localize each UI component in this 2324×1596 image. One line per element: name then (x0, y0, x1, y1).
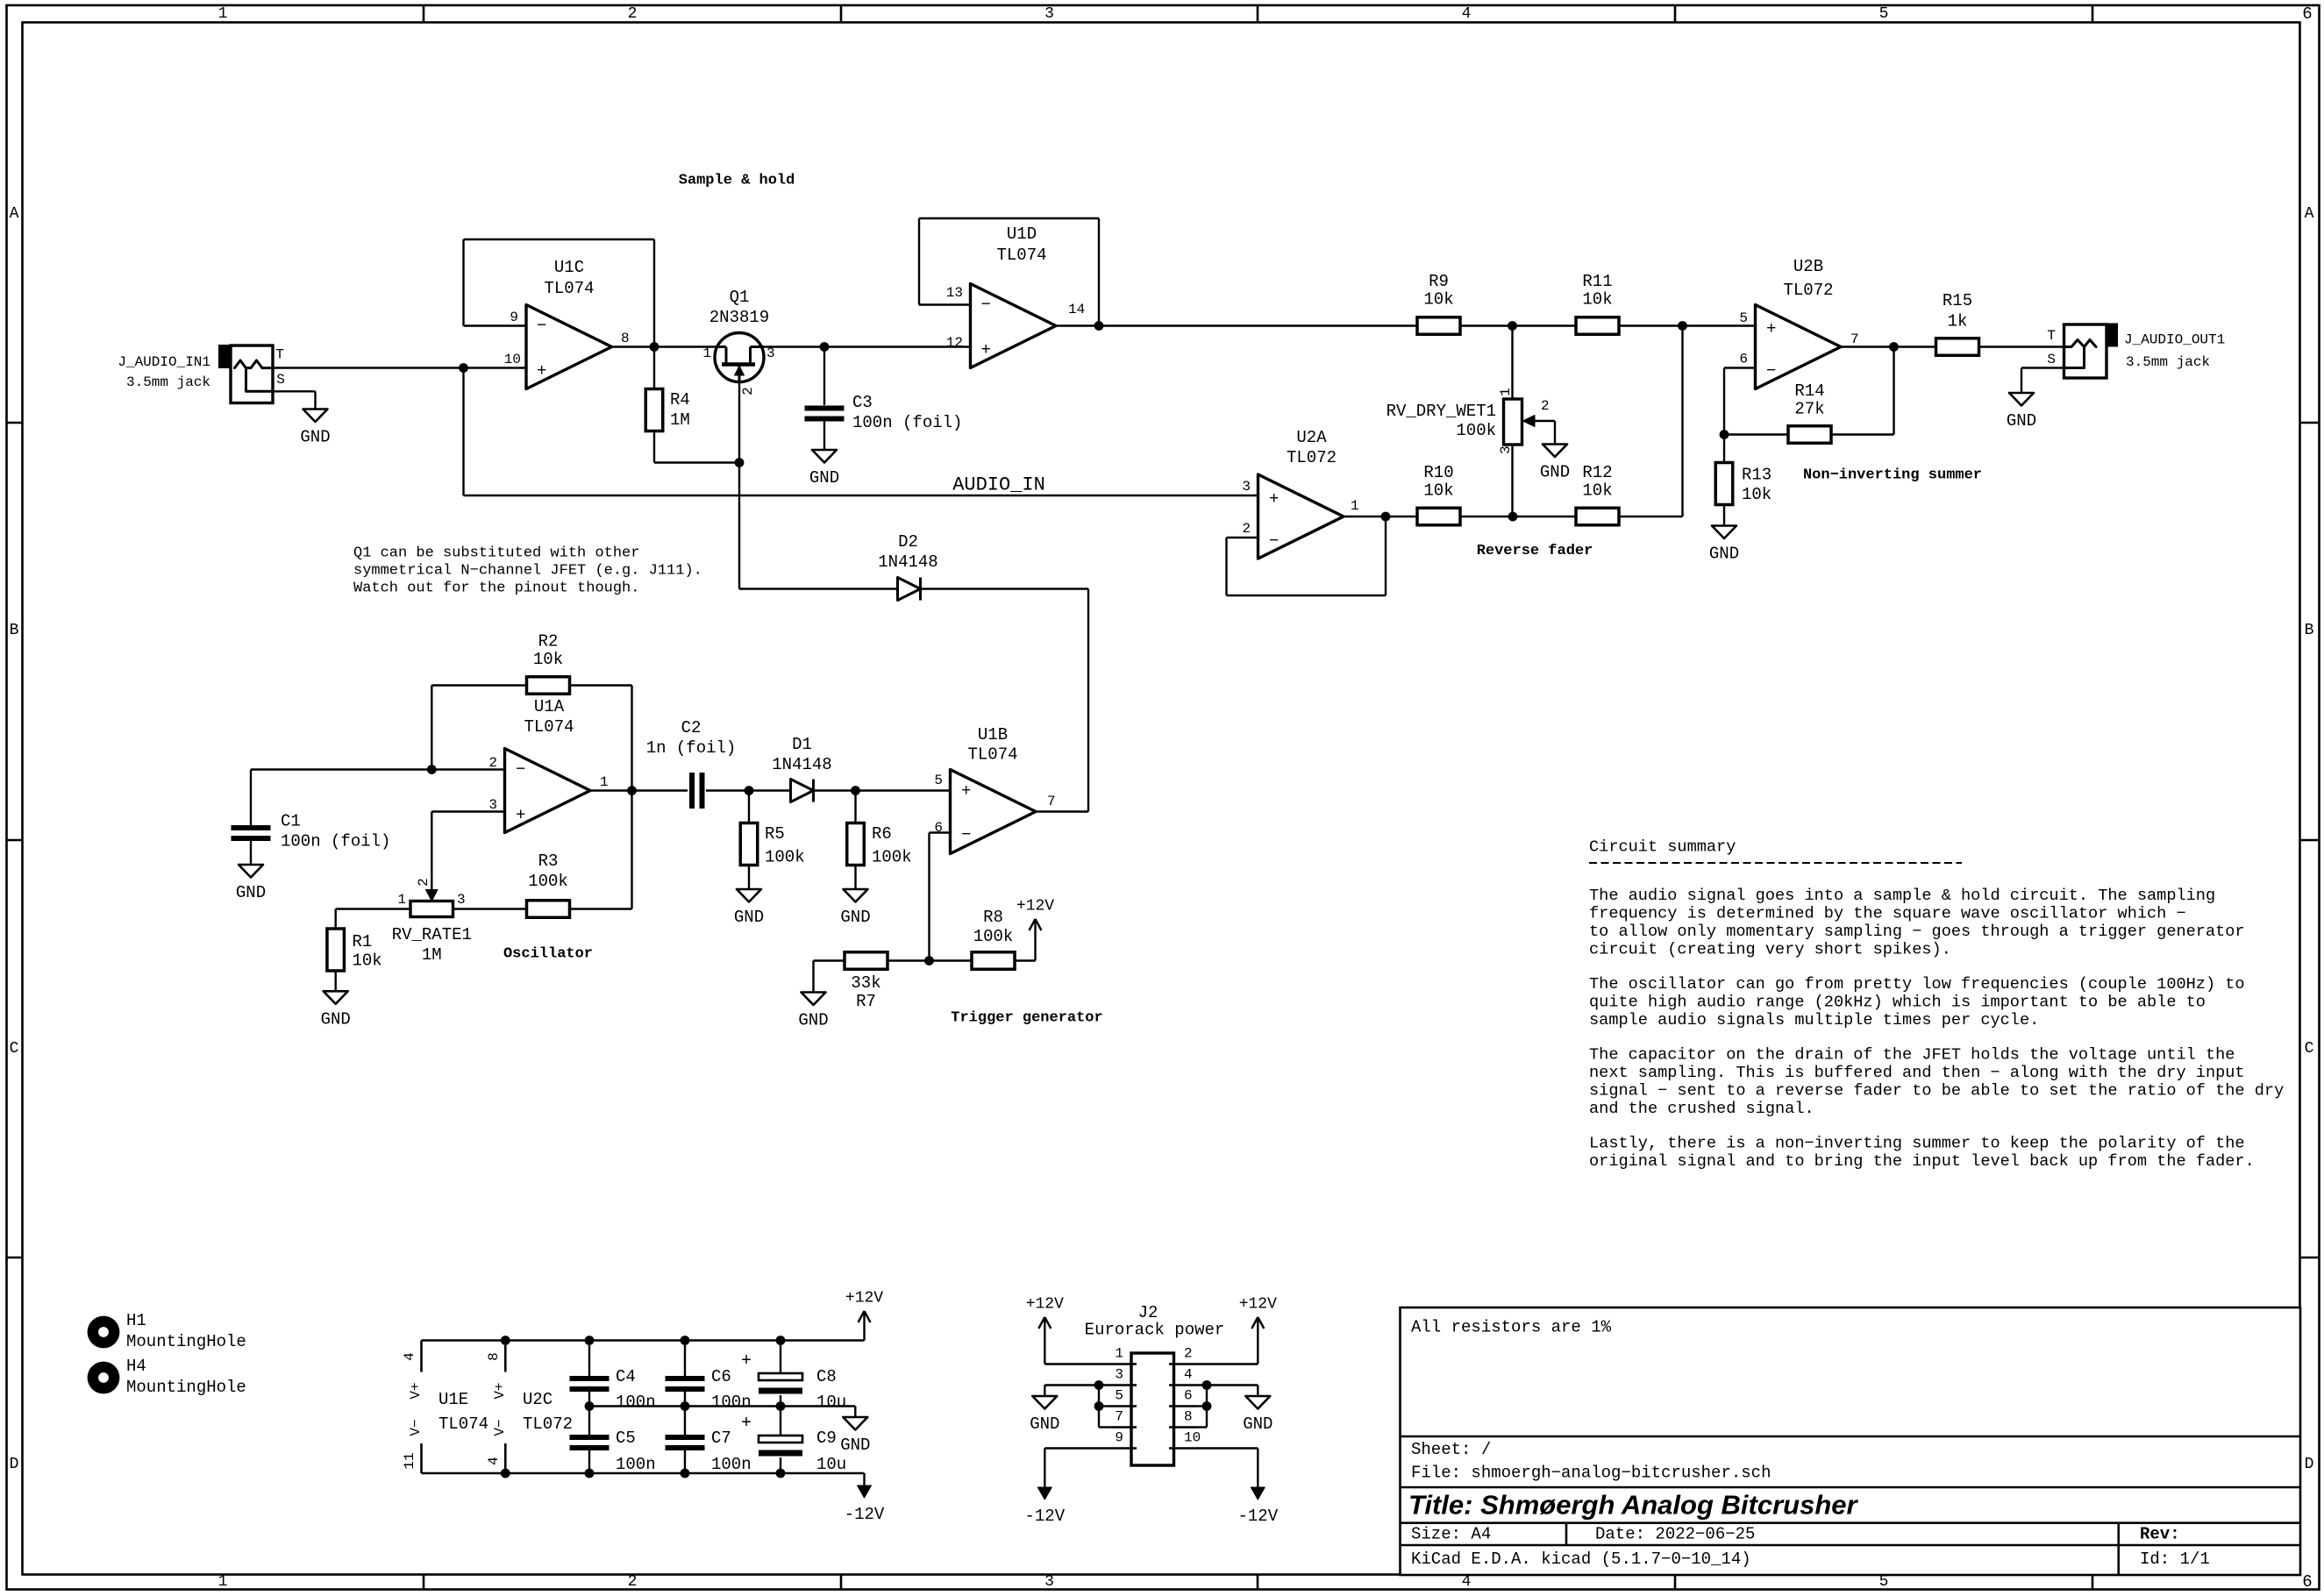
svg-text:6: 6 (2302, 1572, 2312, 1592)
svg-text:8: 8 (486, 1352, 502, 1361)
svg-text:next sampling. This is buffere: next sampling. This is buffered and then… (1589, 1064, 2245, 1082)
svg-text:5: 5 (1739, 310, 1748, 326)
svg-text:C2: C2 (681, 718, 702, 737)
svg-text:D2: D2 (898, 532, 918, 552)
wire J2 gnd bus left pins 3-5-7 (1098, 1386, 1100, 1428)
svg-text:3.5mm jack: 3.5mm jack (126, 374, 210, 390)
svg-text:1: 1 (1498, 388, 1514, 396)
svg-text:GND: GND (236, 883, 266, 902)
svg-text:GND: GND (321, 1009, 351, 1029)
ground at R7 (802, 993, 826, 1006)
svg-text:Oscillator: Oscillator (503, 946, 593, 963)
svg-text:+12V: +12V (1016, 898, 1054, 916)
svg-text:5: 5 (1879, 5, 1889, 23)
svg-text:D: D (10, 1456, 19, 1473)
svg-text:1: 1 (218, 5, 228, 23)
svg-text:10k: 10k (1423, 481, 1453, 501)
wire R13 bottom (1723, 505, 1725, 526)
svg-text:+: + (741, 1414, 752, 1434)
svg-text:C1: C1 (281, 812, 301, 831)
svg-text:-12V: -12V (845, 1505, 885, 1524)
svg-text:H1: H1 (126, 1311, 146, 1330)
capacitor C9 10u (759, 1436, 802, 1443)
wire R12 right and up (1619, 516, 1683, 517)
svg-text:TL072: TL072 (1783, 281, 1833, 300)
wire D2 to U1B output vertical (921, 588, 1089, 589)
wire C1 top to U1A pin2 (251, 768, 505, 770)
svg-text:R2: R2 (538, 632, 559, 652)
svg-text:+: + (981, 340, 991, 360)
capacitor C1 100n (232, 825, 271, 830)
ground at R5 (737, 889, 761, 902)
svg-text:MountingHole: MountingHole (126, 1332, 246, 1351)
wire J2 pin10 to -12V (1195, 1447, 1258, 1449)
power +12V at J2 pin2 (1257, 1317, 1258, 1364)
svg-text:T: T (275, 347, 284, 363)
svg-text:A: A (10, 205, 19, 223)
svg-text:4: 4 (402, 1352, 417, 1361)
wire R3 to output vertical (570, 908, 632, 909)
svg-text:100n (foil): 100n (foil) (852, 413, 962, 432)
junction C1 / R2 / pin2 (427, 765, 437, 774)
resistor R4 1M (645, 389, 663, 431)
svg-text:GND: GND (1709, 545, 1739, 564)
svg-text:C: C (10, 1040, 19, 1058)
op-amp U1B TL074 (951, 770, 1037, 854)
ground at pot wiper (1543, 445, 1567, 458)
svg-text:KiCad E.D.A. kicad (5.1.7−0−1: KiCad E.D.A. kicad (5.1.7−0−10_14) (1411, 1550, 1751, 1569)
resistor R5 100k (740, 823, 758, 866)
svg-text:R10: R10 (1423, 463, 1453, 482)
pot wiper arrow pin2 (1523, 416, 1536, 427)
J2 pin stubs (1110, 1363, 1137, 1364)
wire U1B pin6 down to R7/R8 (930, 831, 951, 833)
svg-text:1n (foil): 1n (foil) (646, 738, 737, 758)
svg-text:C: C (2305, 1040, 2314, 1058)
svg-text:TL072: TL072 (523, 1414, 573, 1434)
svg-text:−: − (981, 296, 991, 315)
title block sheet row (1401, 1436, 2301, 1438)
wire U1D pin13 + feedback loop (919, 303, 971, 305)
svg-text:3: 3 (766, 346, 775, 361)
op-amp U1A TL074 (505, 749, 591, 833)
resistor R15 1k (1936, 338, 1979, 356)
ground at output jack (2009, 393, 2034, 406)
svg-text:GND: GND (2007, 411, 2036, 431)
wire J2 pin9 to -12V (1044, 1447, 1110, 1449)
op-amp U2A TL072 (1258, 474, 1344, 559)
svg-text:3: 3 (1044, 1573, 1054, 1591)
svg-text:12: 12 (946, 335, 963, 351)
svg-text:-12V: -12V (1024, 1507, 1065, 1526)
svg-text:8: 8 (1184, 1409, 1193, 1425)
svg-text:10u: 10u (816, 1393, 846, 1412)
svg-text:U1C: U1C (554, 258, 584, 277)
wire J2 pin3 to gnd (1044, 1384, 1110, 1386)
svg-text:1: 1 (218, 1573, 228, 1591)
svg-text:R9: R9 (1429, 272, 1449, 291)
connector J_AUDIO_OUT1 3.5mm jack (2064, 324, 2107, 378)
svg-text:3: 3 (1044, 5, 1054, 23)
wire Q1 gate to D2 (739, 588, 898, 589)
wire -12V rail (422, 1472, 865, 1474)
ground at R1 (324, 991, 348, 1004)
svg-text:10k: 10k (1423, 290, 1453, 310)
svg-text:U2C: U2C (523, 1390, 552, 1409)
svg-text:+: + (1766, 319, 1776, 338)
svg-text:C8: C8 (816, 1367, 837, 1386)
wire R4 bottom (653, 431, 655, 463)
svg-text:1k: 1k (1948, 312, 1968, 331)
svg-text:-12V: -12V (1237, 1507, 1278, 1526)
capacitor C7 100n (666, 1435, 705, 1440)
svg-text:9: 9 (510, 310, 518, 325)
wire R1 to gnd (335, 971, 337, 991)
svg-text:10k: 10k (1582, 290, 1612, 310)
wire C6 leads (684, 1341, 686, 1377)
svg-text:+: + (516, 806, 525, 825)
svg-text:14: 14 (1068, 302, 1085, 317)
wire R14 right and up to output (1831, 433, 1894, 435)
transistor Q1 2N3819 (715, 333, 764, 382)
frame row ticks left/right (7, 422, 23, 424)
wire AUDIO_IN rail to U2A pin3 (464, 495, 1258, 496)
wire R13 top (1723, 435, 1725, 463)
svg-text:original signal and to bring t: original signal and to bring the input l… (1589, 1152, 2255, 1171)
svg-text:Trigger generator: Trigger generator (951, 1010, 1102, 1027)
wire U1B output up to D2 row (1036, 810, 1088, 812)
power +12V at J2 pin1 (1044, 1317, 1045, 1364)
title block title row (1401, 1486, 2301, 1489)
svg-text:8: 8 (621, 331, 630, 346)
svg-text:Q1 can be substituted with oth: Q1 can be substituted with other (353, 545, 639, 562)
svg-text:1: 1 (1351, 498, 1359, 514)
svg-text:3: 3 (1115, 1367, 1123, 1383)
svg-text:Id: 1/1: Id: 1/1 (2140, 1550, 2210, 1569)
mounting hole H4 (88, 1362, 120, 1394)
resistor R3 100k (527, 901, 570, 918)
svg-text:GND: GND (840, 908, 870, 927)
resistor R8 100k (972, 952, 1015, 970)
op-amp U2B TL072 (1756, 305, 1842, 389)
svg-text:sample audio signals multiple: sample audio signals multiple times per … (1589, 1011, 2039, 1030)
svg-text:100n (foil): 100n (foil) (281, 832, 390, 851)
svg-text:10u: 10u (816, 1455, 846, 1474)
svg-text:2: 2 (416, 878, 431, 887)
frame column ticks top/bottom (423, 5, 425, 23)
power +12V at R8 (1034, 919, 1036, 961)
svg-text:2: 2 (488, 755, 497, 771)
svg-text:T: T (2047, 328, 2056, 344)
wire U1A output (590, 789, 688, 791)
svg-text:100n: 100n (711, 1455, 752, 1474)
wire R8 to +12V (1015, 959, 1036, 961)
svg-text:2: 2 (1184, 1346, 1193, 1362)
wire R2 feedback (431, 686, 432, 770)
junction R7 / R8 / pin6 (924, 956, 934, 965)
svg-text:TL074: TL074 (544, 279, 594, 298)
svg-text:7: 7 (1850, 331, 1859, 347)
wire C4 leads (588, 1341, 590, 1377)
wire pot pin3 to R3 (453, 908, 527, 909)
svg-text:1N4148: 1N4148 (772, 755, 831, 774)
svg-text:−: − (1269, 531, 1279, 551)
wire R4 top (653, 347, 655, 389)
svg-text:2: 2 (628, 5, 638, 23)
wire J2 pin2 to +12V (1195, 1363, 1258, 1364)
svg-text:GND: GND (1243, 1414, 1272, 1434)
wire R10 to pot junction (1460, 516, 1576, 517)
svg-text:GND: GND (798, 1011, 828, 1030)
wire U2A pin2 feedback (1227, 537, 1258, 538)
ground at J2 left (1032, 1396, 1057, 1409)
svg-text:2: 2 (1541, 398, 1550, 414)
power unit U2C TL072 (504, 1341, 507, 1372)
svg-text:10k: 10k (533, 650, 563, 669)
svg-text:The oscillator can go from pre: The oscillator can go from pretty low fr… (1589, 975, 2245, 994)
svg-text:C9: C9 (816, 1429, 837, 1448)
svg-text:C5: C5 (616, 1429, 636, 1448)
ground at J2 right (1245, 1396, 1270, 1409)
wire C2 to R5 junction (706, 789, 791, 791)
svg-text:D: D (2305, 1456, 2314, 1473)
svg-text:−: − (1766, 361, 1776, 381)
svg-text:6: 6 (1184, 1388, 1193, 1404)
svg-text:100k: 100k (973, 927, 1014, 946)
svg-text:GND: GND (809, 468, 839, 488)
svg-text:−: − (961, 825, 971, 844)
svg-text:C3: C3 (852, 393, 873, 412)
junction U1C out / R4 (650, 342, 659, 352)
svg-text:U1B: U1B (978, 725, 1008, 745)
svg-text:−: − (537, 317, 546, 336)
ground at power rail (843, 1417, 867, 1430)
pot RV_RATE1 wiper arrow (426, 890, 438, 901)
svg-text:V+: V+ (492, 1382, 508, 1399)
wire +12V rail (422, 1339, 865, 1341)
svg-text:A: A (2305, 205, 2314, 223)
svg-text:1: 1 (702, 346, 711, 361)
wire C9 leads (780, 1407, 781, 1436)
svg-text:3: 3 (457, 892, 466, 908)
wire jack T to U1C pin10 (273, 367, 526, 368)
wire R5 (748, 791, 750, 823)
wire U2A output rail (1344, 516, 1417, 517)
svg-text:GND: GND (1030, 1414, 1059, 1434)
svg-text:MountingHole: MountingHole (126, 1378, 246, 1397)
svg-text:U2B: U2B (1793, 257, 1823, 276)
svg-text:Size: A4: Size: A4 (1411, 1525, 1491, 1544)
svg-text:C4: C4 (616, 1367, 636, 1386)
svg-text:100k: 100k (872, 848, 912, 867)
svg-text:R11: R11 (1582, 272, 1612, 291)
svg-text:R1: R1 (353, 932, 373, 951)
svg-text:100k: 100k (765, 848, 805, 867)
svg-text:Eurorack power: Eurorack power (1085, 1321, 1225, 1340)
svg-text:V−: V− (408, 1419, 424, 1436)
junction U1D out (1094, 321, 1104, 331)
wire Q1 gate down (738, 382, 740, 463)
junction R4 / Q1 gate (735, 458, 745, 467)
svg-text:3.5mm jack: 3.5mm jack (2126, 354, 2210, 370)
svg-text:+12V: +12V (1239, 1296, 1277, 1314)
svg-text:TL074: TL074 (967, 745, 1017, 765)
svg-text:7: 7 (1115, 1409, 1123, 1425)
ground at R6 (844, 889, 868, 902)
svg-text:6: 6 (2302, 4, 2312, 24)
svg-text:+: + (1269, 489, 1279, 509)
svg-text:R12: R12 (1582, 463, 1612, 482)
svg-text:2: 2 (740, 387, 756, 395)
wire pot pin1 from rail (1511, 326, 1513, 400)
svg-text:+12V: +12V (1026, 1296, 1064, 1314)
wire C8 leads (780, 1341, 781, 1374)
svg-text:Sheet: /: Sheet: / (1411, 1440, 1491, 1459)
svg-text:Title: Shmøergh Analog Bitcrus: Title: Shmøergh Analog Bitcrusher (1408, 1490, 1858, 1521)
svg-text:Non−inverting summer: Non−inverting summer (1803, 467, 1982, 484)
svg-text:4: 4 (1462, 5, 1472, 23)
op-amp U1C TL074 (526, 305, 612, 389)
svg-text:+: + (961, 781, 971, 801)
diode D1 1N4148 (791, 780, 814, 802)
op-amp U1D TL074 (971, 284, 1057, 368)
wire U2B output (1841, 346, 1936, 347)
wire U1C feedback loop (462, 239, 464, 326)
svg-text:Reverse fader: Reverse fader (1477, 543, 1593, 559)
resistor R13 10k (1715, 463, 1733, 505)
junction pot pin3 / R10 / R12 (1508, 512, 1518, 522)
svg-text:The audio signal goes into a s: The audio signal goes into a sample & ho… (1589, 887, 2215, 905)
svg-text:B: B (10, 622, 19, 639)
svg-text:1M: 1M (422, 945, 442, 965)
svg-text:3: 3 (1242, 479, 1251, 495)
svg-text:10: 10 (1184, 1430, 1201, 1446)
wire input node down to AUDIO_IN rail (462, 368, 464, 496)
wire J2 pin1 to +12V (1044, 1363, 1110, 1364)
title block outline (1401, 1307, 2301, 1575)
svg-text:H4: H4 (126, 1357, 146, 1376)
svg-text:R15: R15 (1943, 291, 1972, 310)
svg-text:+: + (741, 1351, 752, 1372)
svg-text:5: 5 (934, 773, 943, 788)
wire R15 to output jack (1979, 346, 2064, 347)
svg-text:Watch out for the pinout thoug: Watch out for the pinout though. (353, 581, 639, 597)
svg-text:10k: 10k (1742, 485, 1772, 504)
svg-text:GND: GND (300, 428, 330, 447)
svg-text:GND: GND (734, 908, 764, 927)
wire U1D output to R9 (1056, 324, 1417, 326)
svg-text:2: 2 (1242, 521, 1251, 537)
wire Q1 drain to C3/U1D (764, 346, 971, 347)
resistor R9 10k (1417, 317, 1460, 335)
wire C3 bottom (823, 422, 825, 451)
capacitor C8 10u (759, 1373, 802, 1380)
svg-text:RV_DRY_WET1: RV_DRY_WET1 (1387, 402, 1496, 421)
resistor R11 10k (1576, 317, 1619, 335)
wire output jack S to gnd (2021, 367, 2064, 368)
resistor R1 10k (327, 929, 345, 971)
svg-text:frequency is determined by the: frequency is determined by the square wa… (1589, 905, 2186, 923)
power unit U1E TL074 (420, 1341, 423, 1372)
capacitor C5 100n (570, 1435, 610, 1440)
resistor R12 10k (1576, 508, 1619, 525)
svg-text:+12V: +12V (845, 1290, 883, 1307)
svg-text:quite high audio range (20kHz): quite high audio range (20kHz) which is … (1589, 994, 2206, 1012)
svg-text:R7: R7 (856, 992, 876, 1011)
wire gnd mid rail (589, 1405, 855, 1407)
svg-text:Circuit summary: Circuit summary (1589, 838, 1736, 857)
svg-text:100n: 100n (711, 1393, 752, 1412)
svg-text:J_AUDIO_OUT1: J_AUDIO_OUT1 (2124, 332, 2225, 348)
wire J2 pin4 to gnd (1195, 1384, 1258, 1386)
wire C5 leads (588, 1407, 590, 1436)
junction U2B out / R14 (1889, 342, 1899, 352)
svg-text:U1A: U1A (534, 697, 565, 716)
svg-text:R8: R8 (983, 908, 1003, 927)
svg-text:7: 7 (1047, 794, 1056, 809)
svg-text:File: shmoergh−analog−bitcrush: File: shmoergh−analog−bitcrusher.sch (1411, 1464, 1771, 1483)
wire U2B pin6 to R13/R14 junction (1724, 367, 1756, 368)
svg-text:TL074: TL074 (996, 246, 1046, 265)
wire R11 to U2B pin5 (1619, 324, 1756, 326)
svg-text:100k: 100k (1456, 421, 1496, 440)
capacitor C6 100n (666, 1376, 705, 1381)
resistor R6 100k (847, 823, 865, 866)
svg-text:4: 4 (1184, 1367, 1193, 1383)
svg-text:2N3819: 2N3819 (709, 308, 769, 327)
wire C7 leads (684, 1407, 686, 1436)
svg-text:R13: R13 (1742, 466, 1772, 485)
svg-text:AUDIO_IN: AUDIO_IN (952, 474, 1045, 496)
svg-text:All resistors are 1%: All resistors are 1% (1411, 1318, 1612, 1337)
svg-text:TL074: TL074 (438, 1414, 488, 1434)
svg-text:+: + (537, 361, 546, 381)
ground at input jack (303, 410, 328, 423)
wire R7 to junction (888, 959, 973, 961)
junction R13 / R14 / pin6 (1720, 430, 1729, 439)
svg-text:Lastly, there is a non−inverti: Lastly, there is a non−inverting summer … (1589, 1135, 2245, 1153)
svg-text:S: S (276, 372, 285, 388)
junction U2A out / feedback (1381, 512, 1391, 522)
wire C1 (250, 770, 252, 826)
wire J2 gnd bus right pins 4-6-8 (1206, 1386, 1208, 1428)
wire R7 left to gnd (814, 959, 845, 961)
svg-text:R5: R5 (765, 824, 785, 844)
svg-text:5: 5 (1115, 1388, 1123, 1404)
svg-text:symmetrical N−channel JFET (e.: symmetrical N−channel JFET (e.g. J111). (353, 563, 702, 580)
wire pot pin1 to R1 (336, 908, 410, 909)
power +12V rail arrow (863, 1311, 865, 1341)
svg-text:11: 11 (402, 1452, 417, 1469)
wire U1A pin3 to pot wiper (431, 810, 504, 812)
power -12V at J2 pin10 (1257, 1475, 1258, 1488)
power -12V at J2 pin9 (1044, 1475, 1045, 1488)
svg-text:Sample & hold: Sample & hold (679, 173, 795, 189)
svg-text:to allow only momentary sampli: to allow only momentary sampling − goes … (1589, 923, 2245, 941)
junction R9 / pot pin1 (1508, 321, 1517, 331)
svg-text:4: 4 (486, 1457, 502, 1465)
wire R9 to R11 (1460, 324, 1576, 326)
potentiometer RV_RATE1 1M (410, 901, 453, 917)
power -12V rail arrow (863, 1473, 865, 1486)
svg-text:U1D: U1D (1007, 224, 1037, 244)
capacitor C4 100n (570, 1376, 610, 1381)
wire R6 (854, 791, 856, 823)
svg-text:−: − (516, 760, 525, 780)
wire U1C output (612, 346, 716, 347)
svg-text:13: 13 (946, 285, 963, 301)
svg-text:TL074: TL074 (524, 717, 574, 737)
